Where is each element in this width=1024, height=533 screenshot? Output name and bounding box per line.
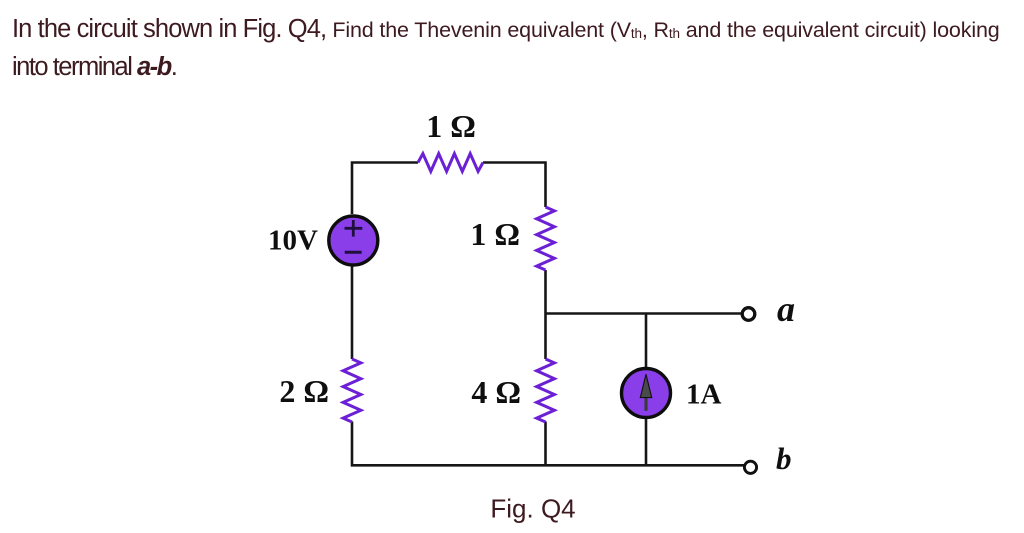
svg-text:Fig. Q4: Fig. Q4	[490, 494, 575, 524]
wire 4-ohm resistor to bottom rail	[544, 422, 547, 466]
svg-text:2 Ω: 2 Ω	[279, 373, 329, 409]
wire node line down to current source top	[645, 314, 648, 368]
wire 1-ohm resistor to 4-ohm resistor	[544, 270, 547, 359]
voltage source plus sign	[345, 220, 363, 237]
terminal a node circle	[742, 308, 755, 321]
resistor R2 1-ohm vertical zigzag	[537, 207, 555, 270]
resistor R4 4-ohm vertical zigzag	[537, 359, 555, 422]
svg-text:1 Ω: 1 Ω	[470, 216, 520, 252]
svg-text:10V: 10V	[268, 225, 318, 257]
current source arrow	[644, 398, 647, 411]
wire top-right corner down to 1-ohm vertical resistor	[483, 163, 546, 208]
wire top-left corner to voltage source top	[352, 163, 418, 215]
voltage source V1 circle	[329, 216, 378, 265]
svg-text:a: a	[777, 289, 795, 329]
svg-text:b: b	[776, 441, 792, 476]
terminal b node circle	[744, 461, 756, 473]
wire voltage source bottom to 2-ohm resistor	[351, 266, 354, 359]
resistor R1 1-ohm horizontal zigzag	[418, 154, 483, 172]
resistor R3 2-ohm vertical zigzag	[343, 359, 361, 422]
svg-text:4 Ω: 4 Ω	[471, 374, 521, 410]
wire bottom-left corner and bottom rail to terminal b	[352, 422, 745, 466]
svg-text:1A: 1A	[686, 379, 722, 411]
wire node line to terminal a	[546, 312, 743, 315]
wire current source bottom to bottom rail	[645, 419, 648, 466]
svg-text:1 Ω: 1 Ω	[426, 108, 476, 144]
voltage source minus sign	[345, 251, 362, 254]
current source I1 circle	[622, 369, 671, 418]
